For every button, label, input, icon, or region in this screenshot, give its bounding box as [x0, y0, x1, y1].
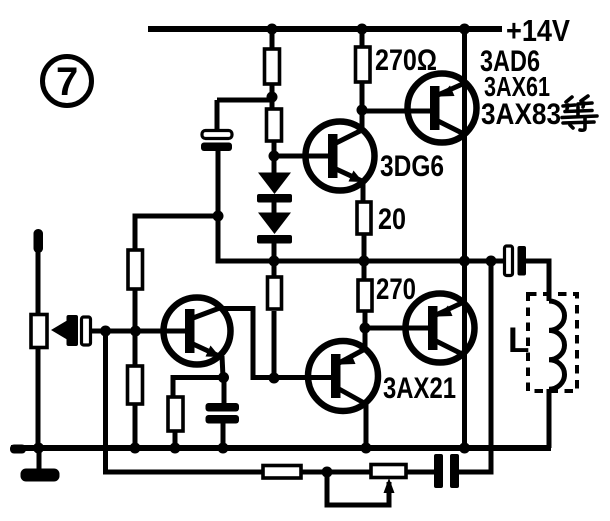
wire: pot to feedback cap [406, 470, 435, 475]
junction: feedback wiper node [322, 467, 333, 478]
bypass cap plate bottom [206, 415, 240, 424]
junction: input node left [100, 326, 111, 337]
junction: rail at bias chain [267, 24, 278, 35]
inductor L coil [549, 301, 565, 389]
wire: inductor bottom to ground rail [547, 389, 552, 448]
junction: 3DG6 base node [269, 151, 280, 162]
input terminal blob [34, 229, 44, 253]
wire: R270 to Q2 emitter node [363, 311, 368, 347]
junction: bootstrap node [267, 92, 278, 103]
transistor 3AD6 (PNP) [408, 74, 477, 143]
input arrow to potentiometer [51, 321, 67, 340]
wire: D2 to mid rail [272, 243, 277, 261]
wire: Q1 emitter node [222, 356, 223, 377]
resistor Q1 emitter [168, 397, 183, 431]
wire: mid rail to R270 lower [362, 261, 367, 280]
junction: rail at 270ohm [357, 24, 368, 35]
feedback cap plate left [434, 454, 443, 488]
wire: bypass cap top [222, 377, 227, 404]
junction: mid rail at right bus [459, 256, 470, 267]
wire: 3DG6 base [274, 154, 334, 159]
svg-text:L: L [508, 321, 529, 360]
wire: pot wiper loop [327, 472, 389, 505]
wire: Q1 emitter resistor to ground [173, 431, 178, 448]
output cap solid plate [518, 246, 527, 276]
wire: output cap to speaker branch [525, 261, 549, 301]
wire: R20 to mid rail [362, 234, 367, 261]
wire: diode D1 to D2 [272, 202, 277, 214]
svg-text:+14V: +14V [506, 13, 570, 48]
junction: mid rail at R20 [359, 256, 370, 267]
svg-text:3AX83: 3AX83 [481, 98, 561, 131]
wire: Q1 emitter resistor branch [173, 378, 224, 398]
junction: ground at emitter resistor [170, 443, 181, 454]
svg-text:3DG6: 3DG6 [380, 150, 444, 183]
resistor bias upper-left [128, 250, 143, 289]
wire: rail to R1 top [270, 29, 275, 49]
wire: feedback tap vertical [459, 261, 491, 472]
svg-text:20: 20 [378, 203, 406, 236]
resistor feedback horizontal [263, 466, 301, 479]
junction: ground at lower bias resistor [130, 443, 141, 454]
feedback cap plate right [450, 454, 459, 488]
wire: 3DG6 emitter to R20 [361, 180, 366, 202]
junction: rail at right bus [459, 24, 470, 35]
transistor Q1 input (NPN) [164, 298, 231, 365]
wire: input node horizontal [90, 329, 191, 334]
bypass cap plate top [206, 403, 240, 412]
ground symbol [21, 469, 60, 482]
wire: Q3 base [365, 326, 433, 331]
wire: 3AD6 base [362, 109, 434, 114]
diode D2 [258, 213, 291, 235]
junction: ground at Q2 collector [361, 443, 372, 454]
diode D1 [258, 173, 291, 195]
svg-text:3AX21: 3AX21 [383, 372, 456, 405]
junction: Q1 emitter node [218, 372, 229, 383]
resistor chain upper R1 [265, 49, 280, 84]
wire: lower bias resistor to Q2 base node [272, 311, 277, 378]
input coupling cap left plate [67, 315, 79, 346]
junction: Q3 base node [360, 323, 371, 334]
wire: lower bias resistor to ground [133, 404, 138, 448]
ground rail [11, 445, 551, 451]
junction: mid rail at diode chain [269, 256, 280, 267]
resistor Q2 base bias [268, 277, 282, 309]
wire: Q2 collector to ground rail [364, 404, 369, 448]
bootstrap cap hollow plate [202, 131, 232, 139]
resistor chain lower R2 [267, 109, 282, 141]
wire: rail to 270ohm resistor [360, 29, 365, 47]
mid output wire [218, 151, 505, 261]
wire: upper bias resistor link [135, 216, 216, 250]
resistor bias lower-left [128, 366, 143, 404]
wire: bootstrap horizontal [217, 98, 271, 103]
wire: bypass cap to ground [221, 422, 226, 448]
resistor 270ohm top [356, 47, 371, 82]
junction: input node bias [130, 326, 141, 337]
junction: ground at right bus [459, 443, 470, 454]
wire: R2 bottom to diode chain [272, 141, 277, 174]
resistor 20 [357, 202, 371, 234]
svg-text:270Ω: 270Ω [375, 44, 437, 77]
wire: mid rail to lower bias resistor [272, 261, 277, 279]
wire: ground stub [37, 448, 42, 470]
wire: bias chain top to bootstrap node [270, 84, 275, 109]
wire: bias node vertical [133, 289, 138, 366]
potentiometer feedback horizontal [371, 465, 406, 478]
wire: feedback R1 to pot [301, 470, 371, 475]
wire: bootstrap cap drop [215, 100, 220, 131]
transistor Q3 output (PNP) [406, 294, 475, 363]
bootstrap cap solid plate [201, 143, 232, 152]
wire: right vertical bus (rail to ground) [462, 29, 467, 448]
input coupling cap hollow plate [82, 317, 91, 345]
potentiometer input vertical [31, 315, 47, 348]
svg-text:7: 7 [56, 60, 78, 104]
svg-text:270: 270 [376, 273, 416, 306]
junction: ground at pot [33, 443, 44, 454]
wire: 270ohm to 3DG6 collector node [360, 82, 365, 130]
junction: output feedback tap [486, 256, 497, 267]
junction: 3DG6 collector node [357, 105, 368, 116]
inductor dashed enclosure [528, 294, 577, 391]
output cap hollow plate [505, 246, 513, 276]
ground rail left end blob [10, 445, 26, 454]
resistor 270 lower [358, 280, 372, 311]
character deng (etc.) after 3AX83 [562, 96, 597, 130]
transistor 3DG6 (NPN) [306, 122, 375, 191]
junction: bootstrap cap node [213, 211, 224, 222]
wire: input terminal line [36, 236, 41, 315]
pot wiper arrow [384, 478, 395, 493]
junction: Q2 base node [269, 373, 280, 384]
wire: feedback left vertical [106, 331, 264, 472]
figure number 7 circle [43, 57, 92, 106]
wire: pot to ground rail [36, 347, 41, 448]
power rail +14V [148, 26, 502, 32]
transistor Q2 3AX21 (PNP) [308, 341, 378, 411]
junction: ground at bypass cap [218, 443, 229, 454]
wire: Q1 collector to Q2 base [220, 309, 336, 378]
